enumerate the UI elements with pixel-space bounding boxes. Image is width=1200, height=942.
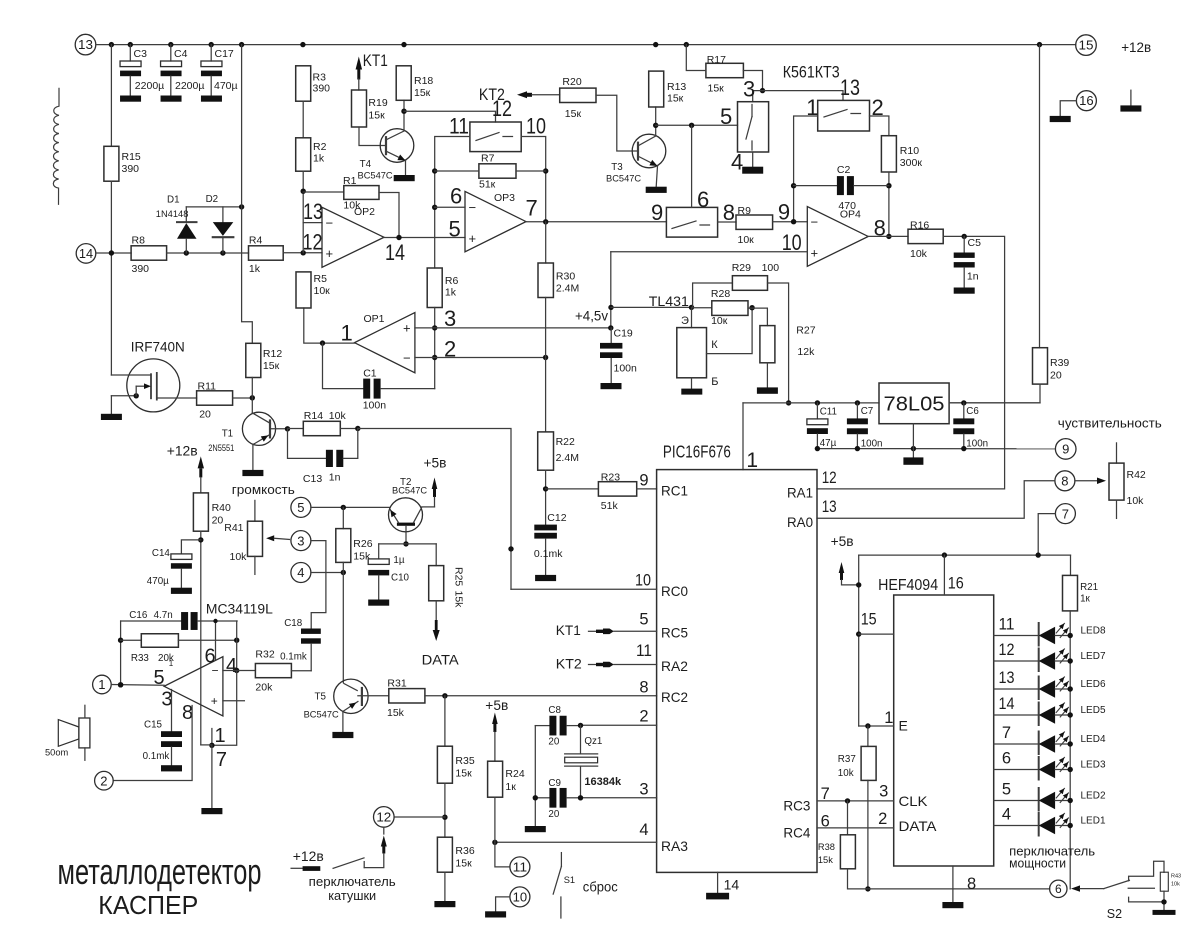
svg-text:RA3: RA3	[661, 838, 688, 854]
svg-text:OP4: OP4	[840, 209, 861, 221]
svg-text:3: 3	[161, 689, 172, 711]
svg-text:11: 11	[513, 860, 528, 874]
svg-text:BC547C: BC547C	[358, 171, 393, 181]
op-amp OP4	[807, 207, 868, 267]
svg-text:7: 7	[216, 749, 227, 771]
svg-text:15k: 15k	[387, 707, 405, 719]
svg-text:Qz1: Qz1	[584, 736, 602, 747]
analog switch 3-5-4	[738, 102, 769, 152]
wire R10 to C2 right node	[888, 172, 890, 236]
svg-text:R14: R14	[304, 410, 323, 422]
svg-text:1: 1	[215, 725, 226, 747]
resistor R16 10k	[908, 229, 943, 243]
resistor R2 1k	[296, 138, 311, 171]
svg-text:3: 3	[444, 306, 456, 331]
svg-text:10k: 10k	[838, 768, 854, 779]
capacitor C19 100n	[610, 328, 612, 343]
svg-text:11: 11	[999, 616, 1015, 634]
wire R16 to C5 and RA1 column	[817, 236, 1005, 489]
wire ground rail under 78L05 to node 9	[817, 448, 1055, 450]
ground symbol top right	[1130, 90, 1132, 105]
arrow +5v T2 collector	[432, 478, 438, 490]
svg-text:100: 100	[762, 262, 780, 274]
svg-text:BC547C: BC547C	[606, 174, 641, 184]
wire R23 to PIC RC1	[637, 488, 657, 490]
svg-text:300к: 300к	[900, 157, 923, 169]
capacitor C1 100n feedback	[323, 343, 364, 389]
node 14 connector circle	[76, 244, 96, 264]
svg-text:C16: C16	[129, 610, 148, 621]
wire +5 column to E wire	[858, 555, 860, 726]
svg-text:100n: 100n	[363, 399, 387, 411]
svg-text:RC4: RC4	[783, 825, 810, 841]
ground T3 emitter	[646, 187, 667, 193]
wire feedback left column	[120, 621, 122, 685]
wire R33 right to pin4 column	[178, 639, 236, 641]
ground R27	[766, 363, 768, 388]
svg-text:5: 5	[639, 611, 648, 629]
ground R36	[444, 872, 446, 901]
IC PIC16F676 box	[657, 470, 817, 873]
resistor R43 pullup	[1160, 872, 1168, 891]
resistor R32 20k	[237, 670, 256, 672]
svg-text:R9: R9	[738, 205, 752, 217]
svg-text:T4: T4	[360, 159, 372, 170]
wire 78L05 output	[949, 402, 1040, 404]
resistor R10 300k	[881, 136, 896, 172]
svg-text:KT2: KT2	[556, 656, 582, 672]
svg-text:10к: 10к	[738, 234, 755, 246]
svg-text:BC547C: BC547C	[392, 486, 427, 496]
svg-text:+5в: +5в	[831, 533, 854, 549]
wire OP3 minus input	[435, 206, 465, 208]
wire pin3 node to switch2 pin 13	[763, 91, 844, 101]
svg-text:C10: C10	[391, 573, 410, 584]
svg-text:чуствительность: чуствительность	[1058, 416, 1162, 430]
svg-text:10k: 10k	[1127, 495, 1145, 507]
capacitor C8 20	[535, 725, 549, 727]
capacitor C18 0.1mk	[301, 629, 321, 634]
arrow +5v HEF	[839, 562, 845, 573]
wire amp pin 7 to ground	[211, 745, 213, 808]
svg-text:5: 5	[720, 104, 732, 129]
svg-text:14: 14	[385, 240, 405, 265]
svg-text:2.4M: 2.4M	[556, 283, 579, 295]
arrow DATA output	[435, 601, 437, 622]
svg-text:51к: 51к	[479, 179, 496, 191]
node 6 connector circle	[1050, 880, 1067, 897]
resistor R38 15k	[847, 801, 849, 835]
resistor R35 15k	[444, 696, 446, 746]
svg-text:4: 4	[297, 565, 304, 580]
capacitor C11 47u electrolytic	[816, 403, 818, 419]
capacitor C6 100n	[963, 403, 965, 419]
svg-text:1n: 1n	[967, 271, 979, 283]
regulator 78L05	[879, 383, 949, 424]
svg-text:R38: R38	[818, 842, 835, 852]
switch S2 contacts	[1129, 861, 1164, 881]
transistor T2 BC547C	[389, 498, 423, 532]
svg-text:RC3: RC3	[783, 798, 810, 814]
svg-text:470µ: 470µ	[147, 576, 169, 587]
capacitor C15 0.1mk on pin 3	[171, 690, 173, 732]
svg-text:R35: R35	[455, 755, 474, 767]
wire R1 to OP2 output	[379, 193, 399, 238]
wire node 5 to T2 emitter	[311, 506, 390, 508]
svg-text:16: 16	[948, 575, 964, 593]
svg-text:7: 7	[526, 196, 538, 221]
crystal Qz1 16384k	[580, 725, 582, 754]
svg-text:0.1mk: 0.1mk	[534, 548, 563, 560]
wire vertical from +12 rail through diodes to R12	[242, 45, 253, 344]
svg-text:+12в: +12в	[167, 442, 198, 458]
capacitor C4 electrolytic 2200u	[170, 45, 172, 61]
wire R30 to OP1 minus / R22	[545, 298, 547, 432]
svg-text:R5: R5	[314, 273, 328, 285]
wire amp pin4 row	[223, 670, 237, 672]
svg-text:20: 20	[548, 737, 559, 748]
diode D1 1N4148	[185, 207, 187, 221]
svg-text:C11: C11	[820, 407, 837, 418]
wire PIC RA0 to node 8	[817, 481, 1055, 518]
op-amp OP2	[322, 207, 384, 267]
svg-text:11: 11	[636, 642, 652, 660]
wire OP2 minus input	[303, 222, 322, 224]
svg-text:13: 13	[840, 75, 860, 100]
svg-text:50om: 50om	[45, 748, 69, 758]
wire diode tops	[186, 206, 241, 208]
svg-text:C2: C2	[837, 164, 851, 176]
TL431 regulator box	[691, 307, 693, 327]
svg-text:S2: S2	[1107, 907, 1122, 921]
wire node14 row	[96, 252, 131, 254]
wire R39 to 5V input rail	[949, 384, 1040, 403]
svg-text:+5в: +5в	[424, 455, 447, 471]
svg-text:R32: R32	[255, 649, 274, 661]
ground at node 16	[1050, 116, 1071, 122]
wire R35 R36 node to coil switch node 12	[444, 783, 446, 837]
MOSFET IRF740N	[127, 359, 180, 412]
svg-text:20k: 20k	[255, 682, 273, 694]
svg-text:R27: R27	[796, 325, 815, 337]
svg-text:C1: C1	[363, 368, 377, 380]
svg-text:1N4148: 1N4148	[156, 209, 189, 219]
coil switch left contact	[291, 867, 304, 869]
svg-text:R25: R25	[453, 567, 465, 586]
svg-text:16384k: 16384k	[584, 776, 622, 788]
svg-text:2: 2	[639, 708, 648, 726]
svg-text:T1: T1	[222, 429, 233, 440]
svg-text:громкость: громкость	[232, 483, 295, 497]
resistor R14 10k	[285, 426, 290, 431]
svg-text:1к: 1к	[1080, 594, 1090, 605]
LED3	[994, 769, 1039, 771]
svg-text:4: 4	[226, 655, 237, 677]
svg-text:DATA: DATA	[422, 652, 460, 668]
svg-text:12: 12	[303, 230, 323, 255]
svg-text:C18: C18	[284, 618, 303, 629]
svg-text:15k: 15k	[453, 591, 465, 609]
ground T1 emitter	[242, 470, 263, 476]
svg-text:LED3: LED3	[1081, 760, 1106, 771]
svg-text:6: 6	[1055, 882, 1062, 896]
svg-text:15к: 15к	[455, 768, 472, 780]
resistor R15 390	[110, 45, 112, 147]
svg-text:6: 6	[205, 645, 216, 667]
wire OP4 output to R16	[868, 235, 908, 237]
svg-text:+12в: +12в	[1121, 39, 1151, 55]
resistor R11 20	[197, 391, 233, 405]
wire node 7 to +5 rail	[1038, 514, 1055, 556]
resistor R40 20	[193, 493, 208, 531]
svg-text:10к: 10к	[314, 285, 331, 297]
capacitor C7 100n	[856, 403, 858, 419]
capacitor C13 1n parallel	[288, 429, 326, 459]
transistor T5 BC547C	[334, 679, 368, 713]
wire T3 collector row to switch pins 5 and 6	[656, 124, 738, 126]
svg-text:RC0: RC0	[661, 583, 688, 599]
resistor R1 10k feedback	[303, 191, 344, 193]
svg-text:RC1: RC1	[661, 483, 688, 499]
svg-text:78L05: 78L05	[884, 394, 945, 416]
wire R15 down to node 14 and MOSFET gate	[110, 181, 112, 375]
svg-text:+: +	[469, 231, 477, 246]
arrow +5v R24	[492, 713, 498, 725]
svg-text:RC5: RC5	[661, 625, 688, 641]
svg-text:C8: C8	[548, 705, 561, 716]
svg-text:14: 14	[999, 695, 1015, 713]
svg-text:13: 13	[303, 199, 323, 224]
svg-text:20: 20	[199, 409, 211, 421]
svg-text:BC547C: BC547C	[304, 710, 339, 720]
svg-text:+5в: +5в	[485, 697, 508, 713]
svg-text:R1: R1	[343, 175, 357, 187]
svg-text:7: 7	[1002, 724, 1011, 742]
svg-text:R30: R30	[556, 271, 575, 283]
op-amp OP3	[465, 191, 526, 251]
svg-text:−: −	[326, 216, 334, 231]
svg-text:15к: 15к	[708, 83, 725, 95]
wire node 1 to amp input	[111, 684, 164, 687]
wire OP1 minus input row	[415, 357, 546, 359]
wire node 11 connection	[495, 842, 510, 867]
wire LED cathode rail	[1069, 611, 1071, 889]
svg-text:Э: Э	[681, 315, 689, 327]
IC HEF4094 box	[894, 595, 994, 866]
svg-text:3: 3	[879, 782, 888, 800]
resistor R17 15k	[706, 63, 744, 77]
node 4 connector circle	[291, 563, 311, 583]
svg-text:+12в: +12в	[293, 848, 324, 864]
svg-text:1k: 1k	[445, 287, 457, 299]
svg-text:7: 7	[1062, 506, 1069, 521]
svg-text:6: 6	[450, 184, 462, 209]
capacitor C3 electrolytic 2200u	[129, 45, 131, 61]
svg-text:R17: R17	[707, 54, 726, 66]
svg-text:R22: R22	[556, 436, 575, 448]
svg-text:10к: 10к	[711, 315, 728, 327]
svg-text:R7: R7	[481, 153, 495, 165]
ground 78L05	[912, 424, 914, 458]
svg-text:R13: R13	[667, 81, 686, 93]
resistor R3 390	[296, 66, 311, 101]
wire switch2 pin1 to C2 left and OP4 minus	[794, 116, 818, 222]
svg-text:HEF4094: HEF4094	[878, 577, 938, 594]
svg-text:20: 20	[1050, 370, 1062, 382]
svg-text:10k: 10k	[1171, 882, 1180, 888]
svg-text:OP3: OP3	[494, 192, 515, 204]
ground C5	[954, 288, 975, 294]
resistor R27 12k	[752, 308, 767, 326]
svg-text:1: 1	[746, 449, 758, 472]
svg-text:1: 1	[884, 709, 893, 727]
wire OP3 output to switch 9	[526, 221, 666, 223]
svg-text:C17: C17	[215, 48, 234, 60]
resistor R13 15k	[649, 71, 664, 107]
svg-text:5: 5	[297, 500, 304, 515]
svg-text:+: +	[811, 246, 819, 261]
resistor R29 100	[693, 283, 733, 307]
svg-text:CLK: CLK	[899, 793, 929, 809]
svg-text:−: −	[469, 200, 477, 215]
svg-text:R33: R33	[131, 653, 150, 664]
svg-text:10k: 10k	[329, 410, 347, 422]
wire TL431 K to R28 right node	[707, 308, 753, 354]
svg-text:MC34119L: MC34119L	[206, 602, 274, 617]
svg-text:R28: R28	[711, 288, 730, 300]
wire pin 6 stub	[215, 621, 217, 660]
svg-text:C13: C13	[303, 473, 322, 485]
svg-text:KT1: KT1	[556, 622, 581, 638]
resistor R39 20	[1039, 45, 1041, 348]
diode D2	[222, 207, 224, 222]
svg-text:12: 12	[376, 810, 391, 824]
svg-text:0.1mk: 0.1mk	[143, 751, 170, 762]
svg-text:R2: R2	[313, 141, 327, 153]
svg-text:R23: R23	[601, 472, 620, 484]
capacitor C16 4.7n feedback	[121, 620, 182, 622]
svg-text:металлодетектор: металлодетектор	[58, 851, 262, 892]
capacitor C12 0.1mk	[534, 525, 557, 531]
svg-text:R36: R36	[455, 845, 474, 857]
svg-text:13: 13	[822, 498, 837, 516]
svg-text:R18: R18	[414, 75, 433, 87]
svg-text:1: 1	[341, 320, 353, 345]
wire node16 to ground	[1060, 101, 1076, 116]
node 7 connector circle	[1055, 504, 1075, 524]
svg-text:1: 1	[98, 677, 105, 692]
svg-text:+4,5v: +4,5v	[575, 308, 608, 324]
svg-text:R12: R12	[263, 348, 282, 360]
svg-text:8: 8	[723, 200, 735, 225]
svg-text:R4: R4	[249, 235, 263, 247]
LED1	[994, 825, 1039, 827]
LED4	[994, 743, 1039, 745]
potentiometer R42 10k	[1116, 443, 1118, 463]
capacitor C5 1n	[963, 236, 965, 252]
wire R12 to T1 collector	[251, 378, 253, 413]
wire 5V input rail to PIC pin 1	[743, 402, 879, 404]
resistor R33 20k	[121, 639, 142, 641]
svg-text:LED4: LED4	[1081, 734, 1106, 745]
svg-text:R29: R29	[732, 262, 751, 274]
svg-text:4.7n: 4.7n	[154, 610, 173, 621]
node 9 connector circle	[1055, 439, 1076, 460]
svg-text:+: +	[403, 320, 411, 335]
svg-text:15: 15	[861, 611, 877, 629]
svg-text:R24: R24	[505, 768, 524, 780]
svg-text:D1: D1	[167, 195, 180, 206]
wire pin4 column to pin1/7 node	[212, 671, 237, 746]
svg-text:RA0: RA0	[787, 514, 813, 530]
svg-text:−: −	[811, 215, 819, 230]
resistor R28 10k	[692, 307, 712, 309]
svg-text:R39: R39	[1050, 357, 1069, 369]
wire R22 to R23 node	[545, 470, 547, 524]
wire switch pin11 to R7/OP3 minus column	[435, 137, 470, 269]
svg-text:TL431: TL431	[649, 294, 689, 309]
node 3 connector circle	[291, 531, 311, 551]
resistor R37 10k	[867, 726, 869, 746]
wire R31 to PIC RC2	[425, 695, 657, 697]
svg-text:+: +	[211, 694, 218, 708]
svg-text:2N5551: 2N5551	[208, 443, 234, 453]
svg-text:100n: 100n	[614, 363, 638, 375]
svg-text:20: 20	[212, 515, 224, 527]
svg-text:C6: C6	[966, 406, 979, 417]
wire right feedback column	[236, 621, 238, 671]
resistor R21 1k	[1070, 555, 1072, 575]
svg-text:−: −	[403, 351, 411, 366]
svg-text:15к: 15к	[368, 110, 385, 122]
svg-text:LED1: LED1	[1081, 816, 1106, 827]
LED5	[994, 714, 1039, 716]
wire OP2 output to OP3 plus	[384, 237, 465, 239]
wire R29 right down to 5V rail	[768, 283, 789, 403]
resistor R23 51k	[546, 488, 599, 490]
svg-text:OP2: OP2	[354, 206, 375, 218]
svg-text:9: 9	[778, 200, 790, 225]
ground amp pin 7	[201, 808, 222, 814]
svg-text:C12: C12	[547, 512, 566, 524]
svg-text:C15: C15	[144, 720, 163, 731]
svg-text:14: 14	[79, 247, 93, 261]
wire R20 to T3 base	[596, 95, 638, 151]
wire OP1 output to R5	[304, 308, 355, 343]
svg-text:T5: T5	[315, 692, 327, 703]
wire KT2 row from T4 collector to switch pin 12	[404, 111, 496, 122]
svg-text:14: 14	[724, 877, 740, 893]
wire R40 supply into pin1 node	[201, 744, 212, 746]
svg-text:10: 10	[526, 114, 546, 139]
pin 16 label and stem	[943, 555, 945, 595]
ground T5 emitter	[332, 732, 353, 738]
node 5 connector circle	[291, 497, 311, 517]
wire TL431 node row	[611, 306, 692, 308]
resistor R5 10k	[296, 272, 311, 308]
svg-text:мощности: мощности	[1009, 856, 1066, 870]
svg-text:R31: R31	[387, 678, 406, 690]
svg-text:сброс: сброс	[583, 880, 618, 895]
svg-text:S1: S1	[564, 875, 575, 885]
potentiometer R41 10k	[254, 500, 256, 521]
svg-text:К561КТ3: К561КТ3	[783, 62, 840, 81]
svg-text:1µ: 1µ	[393, 555, 404, 566]
svg-text:T3: T3	[611, 162, 623, 173]
svg-text:2200µ: 2200µ	[175, 80, 204, 92]
svg-text:R37: R37	[838, 754, 856, 765]
switch S2 wiper arrow	[1071, 885, 1080, 891]
